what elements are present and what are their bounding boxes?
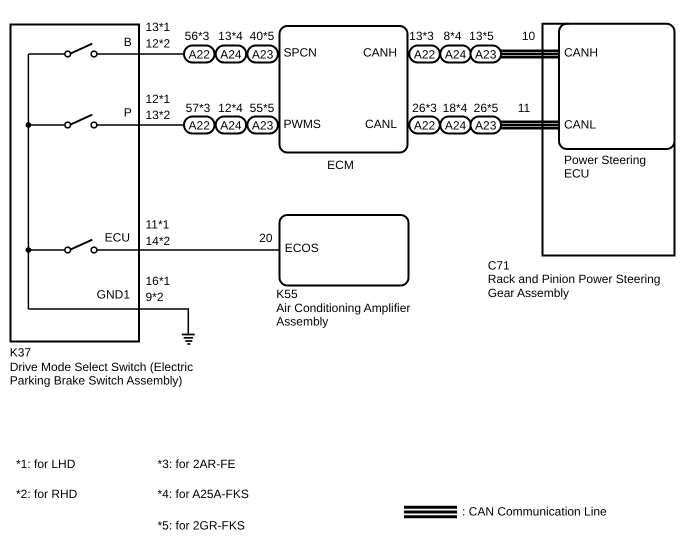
svg-text:A22: A22 bbox=[414, 118, 436, 132]
svg-text:ECM: ECM bbox=[327, 158, 354, 172]
svg-text:57*3: 57*3 bbox=[186, 101, 211, 115]
svg-text:A24: A24 bbox=[445, 47, 467, 61]
svg-text:*4: for A25A-FKS: *4: for A25A-FKS bbox=[158, 487, 249, 501]
svg-text:Rack and Pinion Power Steering: Rack and Pinion Power Steering bbox=[488, 272, 661, 286]
svg-text:13*1: 13*1 bbox=[146, 20, 171, 34]
svg-text:12*4: 12*4 bbox=[218, 101, 243, 115]
svg-text:K55: K55 bbox=[276, 287, 298, 301]
svg-text:13*3: 13*3 bbox=[409, 29, 434, 43]
svg-text:26*3: 26*3 bbox=[412, 101, 437, 115]
svg-text:11: 11 bbox=[518, 101, 531, 115]
svg-text:A23: A23 bbox=[252, 118, 274, 132]
svg-text:GND1: GND1 bbox=[97, 288, 131, 302]
svg-text:CANL: CANL bbox=[365, 117, 397, 131]
svg-text:56*3: 56*3 bbox=[185, 29, 210, 43]
svg-text:11*1: 11*1 bbox=[146, 218, 170, 232]
svg-text:CANH: CANH bbox=[363, 46, 397, 60]
svg-text:18*4: 18*4 bbox=[443, 101, 468, 115]
svg-text:13*4: 13*4 bbox=[218, 29, 243, 43]
svg-text:Power Steering: Power Steering bbox=[564, 153, 646, 167]
svg-text:A22: A22 bbox=[189, 118, 211, 132]
svg-text:A24: A24 bbox=[445, 118, 467, 132]
svg-text:: CAN Communication Line: : CAN Communication Line bbox=[462, 505, 607, 519]
svg-text:10: 10 bbox=[522, 29, 536, 43]
svg-text:CANL: CANL bbox=[564, 118, 596, 132]
svg-text:26*5: 26*5 bbox=[474, 101, 499, 115]
svg-text:PWMS: PWMS bbox=[284, 117, 321, 131]
svg-text:ECU: ECU bbox=[564, 167, 589, 181]
svg-text:C71: C71 bbox=[488, 259, 510, 273]
svg-text:55*5: 55*5 bbox=[250, 101, 275, 115]
svg-text:A22: A22 bbox=[189, 47, 211, 61]
svg-text:A22: A22 bbox=[414, 47, 436, 61]
svg-text:12*1: 12*1 bbox=[146, 92, 171, 106]
svg-text:A23: A23 bbox=[475, 47, 497, 61]
svg-text:Gear Assembly: Gear Assembly bbox=[488, 286, 569, 300]
svg-text:A24: A24 bbox=[220, 118, 242, 132]
svg-text:13*2: 13*2 bbox=[146, 108, 171, 122]
svg-text:*5: for 2GR-FKS: *5: for 2GR-FKS bbox=[158, 519, 245, 533]
svg-text:ECU: ECU bbox=[105, 231, 130, 245]
svg-text:9*2: 9*2 bbox=[146, 290, 164, 304]
svg-text:Parking Brake Switch Assembly): Parking Brake Switch Assembly) bbox=[10, 373, 183, 387]
svg-text:12*2: 12*2 bbox=[146, 37, 171, 51]
svg-text:8*4: 8*4 bbox=[443, 29, 461, 43]
svg-text:ECOS: ECOS bbox=[285, 241, 319, 255]
svg-text:Drive Mode Select Switch (Elec: Drive Mode Select Switch (Electric bbox=[10, 360, 193, 374]
svg-text:SPCN: SPCN bbox=[284, 46, 317, 60]
svg-text:P: P bbox=[124, 106, 132, 120]
svg-text:*2: for RHD: *2: for RHD bbox=[16, 487, 78, 501]
svg-text:14*2: 14*2 bbox=[146, 234, 171, 248]
svg-text:K37: K37 bbox=[10, 346, 32, 360]
svg-text:Air Conditioning Amplifier: Air Conditioning Amplifier bbox=[276, 301, 410, 315]
svg-text:Assembly: Assembly bbox=[276, 315, 328, 329]
svg-text:13*5: 13*5 bbox=[469, 29, 494, 43]
svg-text:40*5: 40*5 bbox=[250, 29, 275, 43]
svg-text:CANH: CANH bbox=[564, 46, 598, 60]
svg-text:16*1: 16*1 bbox=[146, 274, 171, 288]
svg-text:A23: A23 bbox=[475, 118, 497, 132]
svg-text:B: B bbox=[124, 35, 132, 49]
svg-text:A24: A24 bbox=[220, 47, 242, 61]
svg-text:20: 20 bbox=[259, 231, 273, 245]
svg-text:*1: for LHD: *1: for LHD bbox=[16, 457, 76, 471]
svg-text:A23: A23 bbox=[252, 47, 274, 61]
svg-text:*3: for 2AR-FE: *3: for 2AR-FE bbox=[158, 457, 236, 471]
